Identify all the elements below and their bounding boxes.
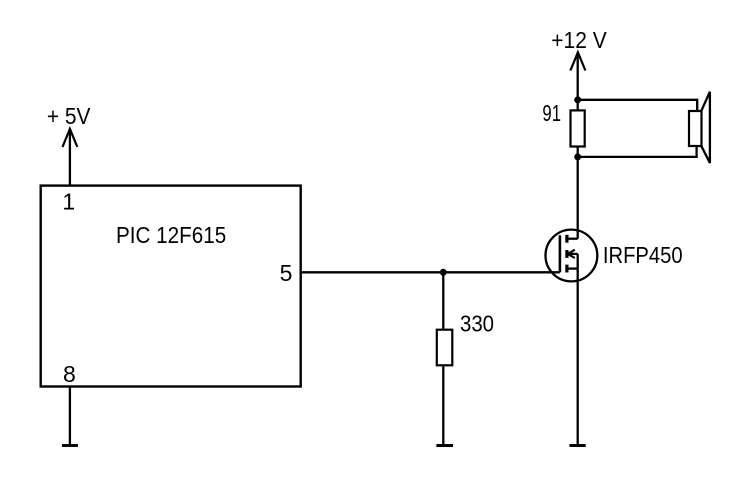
svg-text:+12 V: +12 V [551, 27, 607, 53]
resistor R2 330 body [437, 330, 453, 366]
node B junction dot [574, 153, 581, 160]
wire resistor R2 bottom to ground [442, 365, 444, 445]
ground bar under transistor Q1 source [570, 444, 586, 447]
wire node C to resistor R2 top [442, 272, 444, 329]
node C junction dot [440, 269, 447, 276]
resistor R1 91 body [571, 110, 585, 146]
ground bar under resistor R2 [436, 444, 453, 447]
wire pin1 to +5V [69, 129, 71, 186]
transistor Q1 source bar [567, 267, 578, 269]
svg-text:8: 8 [63, 361, 76, 387]
node A junction dot [574, 96, 581, 103]
wire +12V to node A [577, 52, 579, 100]
wire node B to transistor Q1 drain [577, 157, 579, 239]
transistor Q1 gate bar [559, 235, 562, 272]
ground bar under pin 8 [62, 444, 78, 447]
wire pin5 to transistor Q1 gate [301, 271, 560, 273]
svg-text:5: 5 [280, 260, 293, 286]
transistor Q1 channel middle segment [565, 250, 568, 258]
transistor Q1 channel top segment [565, 235, 568, 243]
power +12V arrow [570, 52, 585, 70]
svg-text:PIC 12F615: PIC 12F615 [116, 222, 226, 248]
transistor Q1 body bar [568, 253, 578, 255]
wire resistor R1 bottom to node B [577, 147, 579, 158]
svg-text:330: 330 [460, 311, 494, 337]
IC U1 PIC 12F615 body [41, 186, 301, 387]
power +5V arrow [63, 129, 78, 147]
speaker LS1 cone [702, 92, 710, 163]
svg-text:IRFP450: IRFP450 [603, 242, 683, 268]
svg-text:1: 1 [62, 188, 75, 214]
transistor Q1 body arrow barb lower [568, 254, 575, 258]
wire node A to resistor R1 top [577, 100, 579, 111]
wire pin8 to ground [69, 387, 71, 446]
transistor Q1 channel bottom segment [565, 265, 568, 273]
speaker LS1 driver body [689, 111, 702, 146]
svg-text:+ 5V: + 5V [47, 103, 91, 129]
wire node A to speaker top [578, 100, 698, 111]
transistor Q1 body-source connector [577, 254, 579, 269]
wire node B to speaker bottom [578, 146, 697, 157]
transistor Q1 MOSFET circle [546, 230, 598, 282]
transistor Q1 drain bar [567, 238, 578, 240]
transistor Q1 body arrow barb upper [568, 250, 575, 254]
wire transistor Q1 source to ground [577, 269, 579, 446]
svg-text:91: 91 [542, 100, 561, 126]
